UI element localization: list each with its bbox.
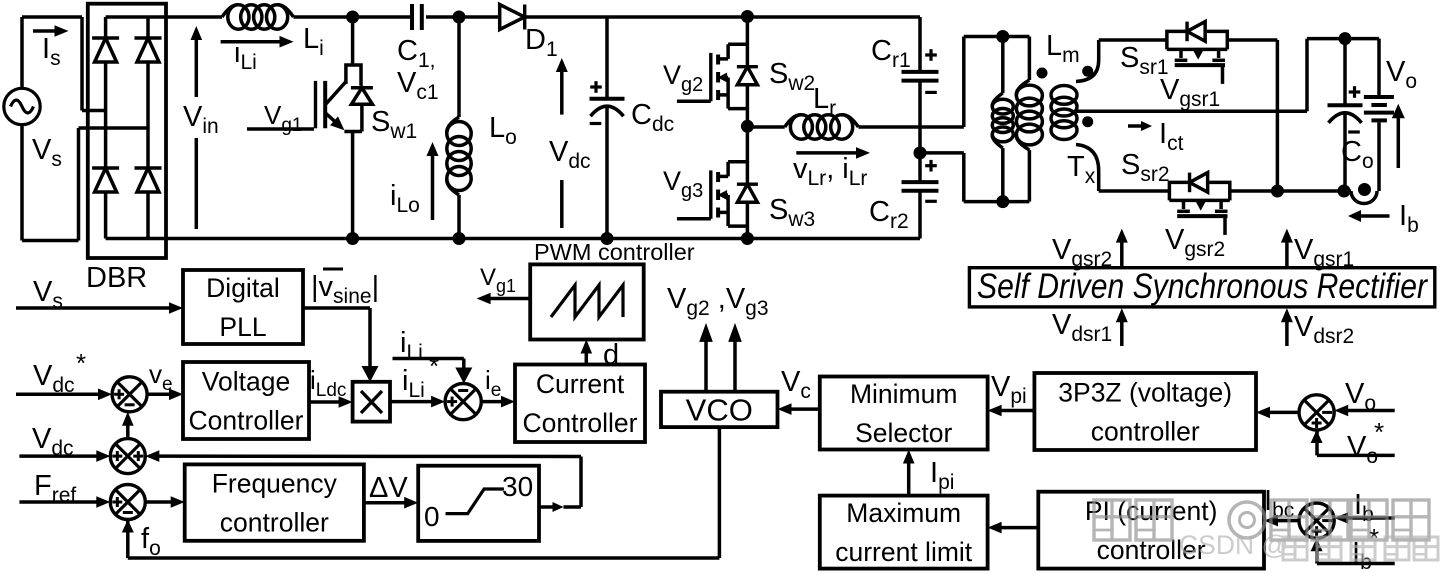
wire hook I_b sense (1351, 191, 1377, 203)
svg-text:Ssr2: Ssr2 (1121, 149, 1170, 186)
arrow V_in (191, 26, 203, 229)
block Voltage Controller (183, 362, 309, 439)
diode D-bridge top-left (95, 38, 117, 62)
svg-text:Controller: Controller (523, 408, 638, 438)
DBR left column (104, 17, 108, 239)
wire V_dc* in (16, 393, 102, 397)
svg-text:current limit: current limit (835, 537, 973, 567)
label vsine (311, 269, 379, 308)
node S_w1 bottom (346, 232, 359, 245)
plus C_o (1349, 90, 1361, 93)
arrow VCO Vg3 (733, 336, 737, 392)
ac source V_s (4, 88, 40, 124)
svg-text:Cdc: Cdc (631, 99, 674, 136)
block PWM sawtooth (530, 264, 644, 339)
wire vsine (303, 308, 379, 382)
svg-text:Digital: Digital (206, 273, 280, 303)
wire V_o* in (1311, 430, 1395, 455)
svg-text:Vin: Vin (183, 101, 219, 138)
svg-text:Vdsr1: Vdsr1 (1052, 309, 1112, 346)
svg-text:iLo: iLo (390, 180, 420, 217)
arrow I_s (33, 25, 69, 37)
transistor S_w2 (MOSFET) (711, 17, 758, 126)
sum junction J1 (112, 377, 147, 412)
arrow d (585, 349, 589, 364)
svg-text:Vgsr2: Vgsr2 (1165, 224, 1225, 261)
svg-text:Vo: Vo (1386, 56, 1417, 93)
capacitor C_dc (590, 17, 625, 239)
svg-text:Vgsr2: Vgsr2 (1052, 234, 1112, 271)
svg-text:Vg2: Vg2 (663, 60, 703, 96)
svg-text:Lo: Lo (489, 112, 517, 149)
wire V_dc in (19, 454, 100, 458)
wire V_s to PLL (16, 306, 173, 310)
node battery bottom (1358, 183, 1371, 196)
node Cr mid (914, 146, 927, 159)
svg-text:Vgsr1: Vgsr1 (1294, 234, 1354, 271)
wire V_o in (1344, 409, 1395, 413)
svg-text:*: * (429, 351, 439, 381)
wire S_sr2 out (1231, 189, 1352, 193)
arrow J2 to J1 (126, 422, 130, 439)
svg-text:Co: Co (1341, 136, 1374, 173)
minus C_dc (590, 122, 602, 125)
secondary dot top (1082, 66, 1093, 77)
inductor L_i (222, 5, 294, 29)
block multiplier (353, 382, 390, 422)
capacitor C_r1 (902, 17, 939, 153)
svg-text:Voltage: Voltage (202, 366, 290, 396)
diode D1 (500, 5, 525, 30)
secondary dot bottom (1082, 116, 1093, 127)
wire Lr right (858, 125, 963, 129)
svg-text:controller: controller (1091, 416, 1200, 446)
svg-text:DBR: DBR (86, 262, 147, 294)
inductor L_o (447, 17, 471, 239)
svg-text:Sw2: Sw2 (769, 58, 815, 95)
svg-text:PLL: PLL (219, 312, 266, 342)
node output plus (1339, 32, 1352, 45)
sum junction J2 (110, 439, 145, 474)
svg-text:Controller: Controller (189, 405, 304, 435)
primary polarity dot (1037, 68, 1048, 79)
plus C_dc (590, 85, 602, 88)
wire J5 to 3P3Z (1266, 411, 1299, 415)
block limiter 0-30 (418, 466, 539, 541)
svg-text:Li: Li (303, 23, 324, 60)
svg-text:Lr: Lr (813, 83, 836, 120)
svg-text:Vgsr1: Vgsr1 (1160, 74, 1220, 111)
wire source bottom (22, 125, 148, 241)
svg-text:Vdc: Vdc (33, 360, 75, 397)
label V_dc* ref (33, 348, 86, 397)
wire PI to Max (997, 526, 1038, 530)
minus C_o (1348, 130, 1360, 133)
wire S_sr1 out (1227, 40, 1277, 191)
svg-text:Current: Current (536, 369, 625, 399)
svg-text:Cr2: Cr2 (869, 196, 909, 233)
wire secondary top lead (1099, 38, 1167, 42)
arrow VCO Vg2 (704, 336, 708, 392)
svg-text:Vg3: Vg3 (663, 166, 703, 202)
svg-text:ΔV: ΔV (369, 472, 408, 504)
minus C_r2 (925, 200, 937, 203)
block VCO (661, 392, 778, 427)
node Lm top (996, 30, 1009, 43)
gate lead V_g3 (677, 217, 711, 221)
watermark (1094, 500, 1429, 540)
transformer primary winding (1016, 37, 1042, 202)
block Frequency controller (185, 464, 364, 540)
block Maximum current limit (820, 496, 988, 569)
node half-bridge mid (741, 120, 754, 133)
node S_w1 top (346, 11, 359, 24)
arrow i_Lo (427, 142, 439, 220)
svg-text:Ipi: Ipi (930, 457, 954, 494)
diode D-bridge bottom-right (137, 168, 159, 192)
block Minimum Selector (820, 377, 988, 450)
wire FC to limiter (364, 501, 409, 505)
svg-text:Ib: Ib (1399, 200, 1419, 237)
wire source top (22, 17, 106, 111)
node L_o bottom (453, 232, 466, 245)
svg-text:Sw3: Sw3 (769, 194, 815, 231)
sum junction J6 (1299, 503, 1334, 538)
wire J1 to VoltageController (147, 393, 173, 397)
diode D-bridge top-right (137, 38, 159, 62)
svg-text:Vdc: Vdc (549, 136, 591, 173)
svg-text:Vg2 ,Vg3: Vg2 ,Vg3 (667, 283, 769, 320)
wire MinSel to VCO (787, 407, 820, 411)
arrow V_dc (556, 58, 568, 228)
capacitor C_o (1328, 39, 1363, 191)
svg-text:VCO: VCO (686, 392, 753, 427)
node Lm bottom (996, 195, 1009, 208)
arrow V_gsr1 up (1281, 229, 1293, 268)
svg-text:Ib: Ib (1354, 489, 1374, 526)
arrow V_o (1392, 104, 1405, 168)
wire J3 to FrequencyController (145, 500, 175, 504)
minus C_r1 (925, 91, 937, 94)
wire J6 to PI (1274, 519, 1299, 523)
plus C_r2 (925, 164, 937, 167)
svg-text:Maximum: Maximum (846, 498, 961, 528)
wire I_b in (1344, 516, 1395, 520)
wire VCO down (718, 427, 722, 430)
svg-text:Vs: Vs (32, 134, 62, 171)
node SR common (1271, 185, 1284, 198)
wire secondary bottom lead (1099, 189, 1170, 193)
wire f_o feedback (122, 427, 720, 558)
block 3P3Z controller (1034, 373, 1256, 450)
node C_dc bottom (601, 232, 614, 245)
svg-text:Vc: Vc (781, 366, 811, 403)
svg-text:CSDN @: CSDN @ (1179, 530, 1288, 560)
svg-text:ie: ie (485, 365, 501, 401)
node S_w3 bottom (741, 232, 754, 245)
label i_Li ref (402, 351, 439, 402)
wire Lr left (747, 125, 784, 129)
box Self Driven Synchronous Rectifier (969, 268, 1434, 307)
svg-text:Vg1: Vg1 (480, 264, 516, 296)
sum junction J4 (445, 384, 481, 420)
wire feedback to J2 (155, 454, 581, 458)
label V_o* ref (1347, 417, 1384, 468)
wire 3P3Z to MinSel (997, 409, 1034, 413)
svg-text:iLi: iLi (400, 327, 423, 364)
node S_w2 top (741, 10, 754, 23)
node L_o top (453, 11, 466, 24)
capacitor C_r2 (902, 153, 939, 239)
svg-text:iLdc: iLdc (310, 365, 346, 401)
svg-text:*: * (1374, 417, 1384, 447)
arrow I_pi (907, 459, 911, 495)
inductor L_r (785, 115, 859, 139)
DBR right column (146, 17, 150, 239)
arrow V_gsr2 up (1116, 229, 1128, 268)
svg-text:PWM controller: PWM controller (534, 239, 695, 265)
capacitor C1 (410, 4, 414, 30)
wire F_ref in (19, 500, 100, 504)
svg-text:0: 0 (424, 501, 440, 532)
svg-text:Tx: Tx (1067, 151, 1096, 188)
arrow I_ct (1128, 121, 1152, 131)
svg-text:d: d (603, 339, 619, 371)
svg-text:controller: controller (220, 508, 329, 538)
battery V_o (1364, 39, 1394, 191)
wire mult to J4 (390, 400, 435, 404)
plus C_r1 (925, 53, 937, 56)
svg-text:*: * (76, 348, 86, 378)
svg-text:Selector: Selector (855, 418, 952, 448)
wire center tap (1076, 39, 1379, 112)
arrow V_dsr2 up (1281, 308, 1293, 346)
DBR box (88, 4, 166, 258)
wire Cr-mid to primary bottom (920, 153, 1030, 202)
svg-text:|vsine|: |vsine| (311, 271, 379, 308)
sum junction J5 (1299, 395, 1334, 430)
diode D-bridge bottom-left (95, 168, 117, 192)
inductor L_m (992, 37, 1013, 202)
svg-text:Self Driven Synchronous Rectif: Self Driven Synchronous Rectifier (977, 267, 1428, 306)
wire i_Li sense (393, 359, 473, 384)
arrow v_Lr (796, 147, 870, 159)
wire Lr to primary top (964, 37, 1030, 128)
block PI current controller (1038, 492, 1264, 569)
top rail (106, 15, 920, 19)
wire VC to multiplier (309, 400, 343, 404)
svg-text:Minimum: Minimum (850, 379, 957, 409)
svg-text:Vo: Vo (1345, 378, 1376, 415)
transistor S_w3 (MOSFET) (711, 126, 758, 238)
arrow V_g1 out (486, 297, 530, 301)
svg-text:Vc1: Vc1 (397, 67, 439, 104)
arrow i_Li (221, 36, 294, 48)
svg-text:Frequency: Frequency (212, 469, 338, 499)
transistor S_w1 (IGBT) (247, 17, 373, 239)
transformer secondary winding (1051, 40, 1099, 191)
wire limiter feedback (539, 457, 581, 513)
svg-text:fo: fo (141, 523, 161, 560)
svg-text:Cr1: Cr1 (871, 35, 911, 72)
svg-text:3P3Z (voltage): 3P3Z (voltage) (1058, 377, 1232, 407)
arrow I_b (1348, 210, 1390, 222)
svg-text:iLi: iLi (402, 365, 425, 402)
svg-text:Sw1: Sw1 (371, 106, 417, 143)
gate lead V_g2 (677, 100, 711, 104)
bottom rail (106, 237, 920, 241)
arrow V_dsr1 up (1116, 308, 1128, 346)
svg-text:Vdsr2: Vdsr2 (1294, 311, 1354, 348)
wire I_b* in (1311, 538, 1395, 563)
svg-text:Vpi: Vpi (991, 371, 1027, 408)
label I_b* ref (1352, 523, 1379, 574)
svg-text:D1: D1 (525, 24, 558, 61)
transistor S_sr2 (sync rect MOSFET) (1169, 173, 1229, 235)
transistor S_sr1 (sync rect MOSFET) (1167, 22, 1227, 84)
svg-text:30: 30 (502, 471, 533, 502)
sum junction J3 (110, 485, 145, 520)
svg-text:Lm: Lm (1046, 30, 1080, 67)
wire J4 to CurrentController (481, 400, 505, 404)
block Current Controller (515, 365, 645, 443)
node C_o bottom (1338, 185, 1351, 198)
svg-text:Ict: Ict (1159, 118, 1184, 155)
block Digital PLL (183, 270, 303, 344)
svg-text:Is: Is (42, 33, 61, 70)
